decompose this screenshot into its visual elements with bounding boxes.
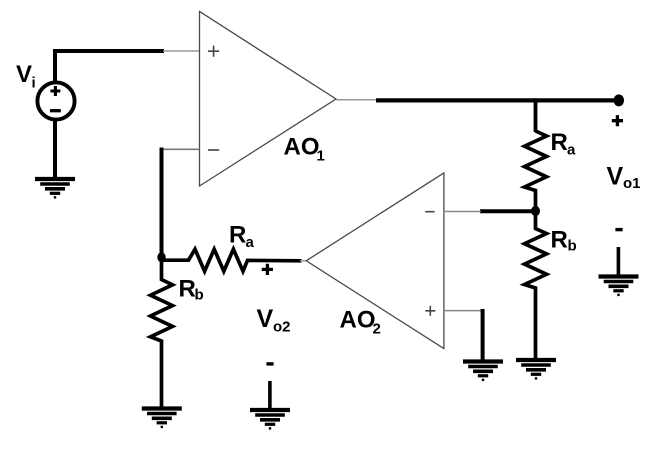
svg-text:b: b	[195, 287, 204, 304]
svg-text:1: 1	[317, 148, 325, 165]
resistor Rb left (vertical)	[151, 255, 173, 409]
svg-text:b: b	[568, 238, 577, 255]
wire thin lead into AO1 + input	[163, 50, 200, 52]
svg-text:R: R	[179, 276, 196, 303]
ground under AO2 + input	[463, 362, 503, 380]
wire thin lead AO2 - input	[444, 211, 481, 213]
svg-text:2: 2	[373, 321, 381, 338]
svg-text:i: i	[32, 75, 36, 92]
wire thin lead to AO2 output apex	[300, 260, 307, 262]
wire node B to AO2 - input (thick part)	[480, 209, 532, 213]
svg-text:V: V	[257, 305, 274, 333]
plus mark AO1 input	[208, 46, 219, 57]
minus sign Vo1 terminal	[615, 228, 622, 231]
voltage source Vi circle	[37, 82, 74, 119]
wire divider tap down from output wire	[534, 98, 538, 132]
wire Vo2 ground stub	[268, 381, 272, 409]
plus sign Vo1 terminal	[612, 115, 623, 126]
ground under Vo1	[599, 277, 639, 295]
ground under Vi	[35, 179, 75, 197]
node A junction dot	[157, 252, 165, 262]
ground under Rb left	[142, 409, 182, 427]
svg-text:a: a	[567, 142, 576, 159]
minus mark AO1 input	[208, 149, 219, 151]
output terminal dot Vo1	[614, 94, 624, 106]
wire thin lead AO1 - input	[160, 148, 200, 150]
minus sign Vo2 terminal	[266, 362, 273, 365]
svg-text:AO: AO	[340, 307, 376, 334]
resistor Ra right (vertical)	[525, 131, 547, 208]
wire AO1 - input down to node A (thick)	[160, 148, 164, 258]
resistor Rb right (vertical)	[525, 214, 547, 359]
svg-text:V: V	[16, 61, 32, 88]
op-amp U2 triangle AO2	[306, 173, 444, 349]
wire Vo1 ground stub	[617, 247, 621, 276]
svg-text:V: V	[607, 163, 624, 191]
plus sign Vo2 terminal (bold, near AO2 apex)	[262, 264, 273, 275]
wire source bottom to ground	[53, 120, 57, 178]
svg-text:R: R	[229, 222, 246, 249]
minus mark AO2 input	[425, 211, 434, 213]
svg-text:AO: AO	[284, 134, 320, 161]
svg-text:o2: o2	[273, 319, 291, 336]
ground under Rb right	[516, 360, 556, 378]
wire thin lead AO1 output	[336, 99, 377, 101]
svg-text:R: R	[551, 129, 568, 156]
plus mark AO2 input	[425, 306, 435, 316]
plus sign inside source	[50, 86, 60, 96]
svg-text:o1: o1	[623, 175, 641, 192]
svg-text:R: R	[551, 227, 568, 254]
wire thin lead AO2 + input	[444, 310, 483, 312]
minus sign inside source	[50, 109, 61, 112]
ground under Vo2	[250, 410, 290, 428]
op-amp U1 triangle AO1	[200, 12, 337, 187]
svg-text:a: a	[246, 234, 255, 251]
wire Vi top to AO1 + input (thick)	[55, 51, 164, 81]
resistor Ra left (horizontal)	[162, 249, 302, 271]
wire AO1 output to terminal (thick)	[376, 98, 616, 102]
wire AO2 + input down to ground (thick)	[481, 309, 485, 361]
node B junction dot	[531, 206, 540, 216]
